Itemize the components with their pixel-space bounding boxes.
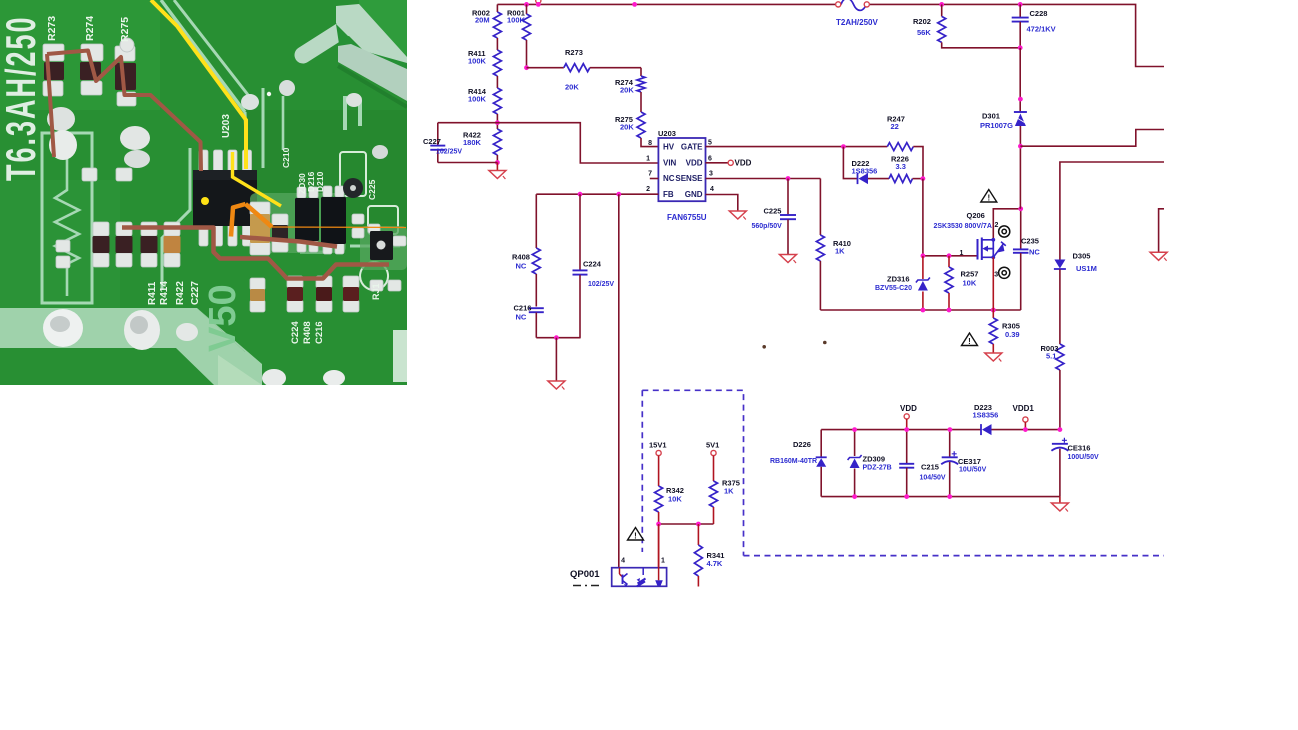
capacitor C227 <box>423 123 462 163</box>
svg-text:T6.3AH/250: T6.3AH/250 <box>0 15 45 181</box>
svg-text:D301: D301 <box>982 112 1000 121</box>
resistor R273 <box>527 48 642 92</box>
svg-text:C227: C227 <box>190 281 201 305</box>
ground (CE316) <box>1051 497 1068 512</box>
svg-text:CE317: CE317 <box>958 457 981 466</box>
svg-text:3: 3 <box>709 171 713 178</box>
svg-text:C224: C224 <box>583 260 602 269</box>
test point (drain) <box>999 226 1010 237</box>
svg-text:56K: 56K <box>917 28 931 37</box>
svg-text:R408: R408 <box>512 253 530 262</box>
svg-text:15V1: 15V1 <box>649 441 667 450</box>
capacitor C228 <box>1012 4 1056 47</box>
svg-text:PDZ-27B: PDZ-27B <box>863 465 892 472</box>
svg-text:C224: C224 <box>290 321 301 344</box>
resistor R375 <box>710 456 740 524</box>
svg-text:3.3: 3.3 <box>896 162 906 171</box>
svg-text:FB: FB <box>663 190 674 199</box>
SOT component 1 <box>295 187 319 252</box>
stray mark 1 <box>762 345 766 349</box>
annotation brown trace B3 <box>122 228 389 279</box>
dark round component <box>343 178 363 198</box>
diode D226 RB160M-40TR <box>770 430 827 497</box>
svg-text:4: 4 <box>710 186 714 193</box>
svg-text:Q206: Q206 <box>967 211 985 220</box>
wire FB ground rail <box>536 337 580 339</box>
MOSFET Q206 2SK3530 <box>934 209 1021 279</box>
resistor R342 <box>655 456 684 568</box>
annotation orange thin line <box>272 226 406 229</box>
svg-text:U203: U203 <box>658 129 676 138</box>
svg-text:VDD: VDD <box>686 159 703 168</box>
svg-text:10U/50V: 10U/50V <box>959 467 987 474</box>
annotation brown trace B1 <box>47 51 201 172</box>
resistor R414 <box>468 76 501 129</box>
svg-text:!: ! <box>987 194 990 203</box>
svg-text:C225: C225 <box>764 207 782 216</box>
svg-text:472/1KV: 472/1KV <box>1027 25 1056 34</box>
svg-text:R257: R257 <box>961 270 979 279</box>
annotation orange trace O1 <box>231 204 246 237</box>
ground (FB filter) <box>548 338 565 390</box>
svg-text:D226: D226 <box>793 440 811 449</box>
svg-text:R202: R202 <box>913 17 931 26</box>
node VDD <box>900 404 917 430</box>
svg-text:C227: C227 <box>423 137 441 146</box>
resistor R202 <box>913 4 1020 47</box>
svg-text:SENSE: SENSE <box>675 174 703 183</box>
svg-text:R422: R422 <box>175 281 186 305</box>
wire VDD rect bottom <box>821 496 1060 498</box>
ground (U203 GND pin4) <box>706 195 747 220</box>
diode D223 1S8356 <box>973 403 999 435</box>
SOT component 2 <box>321 186 346 254</box>
capacitor CE316 <box>1051 438 1099 497</box>
ground (C227/R422) <box>489 163 506 180</box>
svg-text:1: 1 <box>960 250 964 257</box>
node 5V1 <box>706 441 719 456</box>
svg-text:0.39: 0.39 <box>1005 330 1020 339</box>
wire SENSE net <box>706 178 821 180</box>
pin 7 stub <box>650 178 659 180</box>
wire drain link right <box>1020 130 1164 147</box>
warning triangle (Q206) <box>981 190 997 203</box>
resistor R247 <box>887 115 923 179</box>
svg-text:20K: 20K <box>620 86 634 95</box>
svg-text:V50: V50 <box>202 284 244 352</box>
fuse F1 T2AH/250V <box>841 0 866 10</box>
svg-text:20K: 20K <box>565 83 579 92</box>
svg-text:1: 1 <box>661 558 665 565</box>
wire source rail <box>820 309 1020 311</box>
SMD R275 <box>115 46 136 106</box>
big solder pads upper-left <box>47 107 75 131</box>
svg-text:100U/50V: 100U/50V <box>1068 454 1099 461</box>
right black component <box>368 224 406 260</box>
svg-text:R273: R273 <box>46 16 58 41</box>
svg-text:20K: 20K <box>620 123 634 132</box>
svg-text:US1M: US1M <box>1076 264 1097 273</box>
tan capacitor <box>250 202 270 255</box>
svg-text:GATE: GATE <box>681 143 703 152</box>
svg-text:C215: C215 <box>921 463 939 472</box>
etched spark-gap box <box>42 133 92 303</box>
svg-text:NC: NC <box>1029 248 1040 257</box>
wire GATE net <box>706 146 888 148</box>
misc thin traces <box>162 148 190 290</box>
capacitor CE317 <box>941 430 986 497</box>
svg-text:CE316: CE316 <box>1068 444 1091 453</box>
diode D222 1S8356 <box>843 147 889 185</box>
svg-text:NC: NC <box>516 262 527 271</box>
svg-text:R414: R414 <box>159 281 170 305</box>
svg-text:NC: NC <box>516 313 527 322</box>
bottom pale band <box>0 308 245 385</box>
PCB photo (left) <box>0 0 407 387</box>
resistor R226 <box>889 155 923 183</box>
svg-text:6: 6 <box>708 156 712 163</box>
resistor R002 <box>472 4 501 38</box>
wide tinned diagonal trace <box>336 4 407 94</box>
warning triangle (R305) <box>962 333 978 346</box>
svg-text:100K: 100K <box>468 57 487 66</box>
svg-text:C235: C235 <box>1021 237 1039 246</box>
warning triangle (QP001) <box>628 528 644 541</box>
svg-text:C216: C216 <box>314 321 325 344</box>
optocoupler QP001 <box>570 558 667 588</box>
svg-text:20M: 20M <box>475 16 490 25</box>
svg-text:BZV55-C20: BZV55-C20 <box>875 285 912 292</box>
svg-text:1S8356: 1S8356 <box>852 167 878 176</box>
svg-text:100K: 100K <box>507 16 526 25</box>
junction dots top rail <box>524 2 529 7</box>
svg-text:3: 3 <box>994 272 998 279</box>
svg-text:4.7K: 4.7K <box>707 559 723 568</box>
svg-text:1S8356: 1S8356 <box>973 411 999 420</box>
zener ZD316 BZV55-C20 <box>875 256 930 310</box>
svg-text:QP001: QP001 <box>570 569 600 580</box>
node VIN divider <box>495 120 500 125</box>
bottom-right SMD cluster <box>287 276 303 312</box>
wire QP001 pin1 <box>658 524 660 568</box>
svg-text:102/25V: 102/25V <box>436 149 462 156</box>
svg-text:!: ! <box>634 532 637 541</box>
svg-text:4: 4 <box>621 558 625 565</box>
annotation yellow trace Y2 <box>233 152 282 206</box>
wire R342/R375 junction <box>659 523 714 525</box>
svg-text:C228: C228 <box>1030 9 1048 18</box>
resistor R341 <box>694 524 724 587</box>
svg-text:560p/50V: 560p/50V <box>752 223 783 230</box>
capacitor C224 <box>573 194 615 338</box>
stray mark 2 <box>823 341 827 345</box>
svg-text:C210: C210 <box>281 147 291 168</box>
svg-text:NC: NC <box>663 174 675 183</box>
resistor R410 <box>816 179 851 311</box>
svg-text:2: 2 <box>646 186 650 193</box>
svg-text:ZD316: ZD316 <box>887 275 910 284</box>
svg-text:ZD309: ZD309 <box>863 455 886 464</box>
diode D305 US1M <box>1054 252 1097 345</box>
resistor R408 <box>512 194 540 306</box>
svg-text:C225: C225 <box>367 179 377 200</box>
resistor R257 <box>945 256 978 310</box>
svg-text:VDD: VDD <box>735 159 752 168</box>
test point (source) <box>999 267 1010 278</box>
resistor R275 <box>615 112 658 147</box>
svg-text:1K: 1K <box>835 247 845 256</box>
annotation yellow trace Y1 <box>151 0 246 169</box>
svg-text:PR1007G: PR1007G <box>980 121 1013 130</box>
svg-text:R274: R274 <box>84 16 96 41</box>
svg-text:10K: 10K <box>963 279 977 288</box>
resistor R003 <box>1041 344 1064 430</box>
wire top AC rail <box>497 3 835 5</box>
svg-text:8: 8 <box>648 140 652 147</box>
port (top off-page) <box>536 0 541 3</box>
svg-text:5.1: 5.1 <box>1046 352 1056 361</box>
resistor R274 <box>615 68 645 112</box>
svg-text:1K: 1K <box>724 487 734 496</box>
wire aux winding <box>1060 162 1164 260</box>
node VDD1 <box>1013 404 1035 430</box>
resistor R001 <box>507 4 531 67</box>
svg-text:RJ1: RJ1 <box>371 283 381 300</box>
thin diagonal trace pair <box>161 0 245 112</box>
ground (R305) <box>985 353 1002 362</box>
svg-text:7: 7 <box>648 171 652 178</box>
op-amp/PWM IC U203 FAN6755U <box>646 129 714 222</box>
capacitor C216 <box>514 304 544 338</box>
svg-text:T2AH/250V: T2AH/250V <box>836 18 878 27</box>
wire Q206 source to rail <box>992 257 994 310</box>
svg-text:RB160M-40TR: RB160M-40TR <box>770 458 817 465</box>
svg-text:100K: 100K <box>468 95 487 104</box>
wire gate drive <box>923 179 978 256</box>
ground (aux right) <box>1150 209 1167 261</box>
wire FB to optocoupler <box>618 194 620 568</box>
svg-text:!: ! <box>968 337 971 346</box>
svg-text:C216: C216 <box>514 304 532 313</box>
annotation orange trace O2 <box>246 204 273 227</box>
svg-text:R408: R408 <box>302 321 313 344</box>
svg-text:5V1: 5V1 <box>706 441 719 450</box>
resistor R422 <box>463 129 501 163</box>
svg-text:VDD1: VDD1 <box>1013 404 1035 413</box>
wire FB net <box>536 193 658 195</box>
svg-text:HV: HV <box>663 143 675 152</box>
svg-text:FAN6755U: FAN6755U <box>667 213 707 222</box>
svg-text:VIN: VIN <box>663 159 677 168</box>
svg-text:GND: GND <box>685 190 703 199</box>
capacitor C235 <box>1013 209 1040 310</box>
resistor R411 <box>468 38 501 76</box>
svg-text:104/50V: 104/50V <box>920 475 946 482</box>
svg-text:102/25V: 102/25V <box>588 281 614 288</box>
dashed feedback box <box>642 390 1164 555</box>
svg-text:R273: R273 <box>565 48 583 57</box>
svg-text:1: 1 <box>646 156 650 163</box>
annotation brown trace B2 <box>47 54 54 157</box>
wire VDD rect top <box>821 429 981 431</box>
svg-text:D305: D305 <box>1073 252 1091 261</box>
svg-text:VDD: VDD <box>900 404 917 413</box>
svg-text:D210: D210 <box>315 171 325 192</box>
SMD R273 <box>43 44 64 96</box>
resistor R305 <box>989 310 1020 353</box>
svg-text:22: 22 <box>891 122 899 131</box>
pin 6 VDD port <box>706 159 752 168</box>
capacitor C215 <box>899 430 946 497</box>
IC U203 <box>193 150 257 246</box>
svg-text:R275: R275 <box>119 17 131 42</box>
svg-text:2SK3530 800V/7A: 2SK3530 800V/7A <box>934 223 992 230</box>
node 15V1 <box>649 441 667 456</box>
svg-text:5: 5 <box>708 140 712 147</box>
diode D301 PR1007G <box>980 48 1027 209</box>
solder blobs <box>43 309 83 347</box>
annotation brown trace B4 <box>240 237 337 247</box>
svg-text:180K: 180K <box>463 138 482 147</box>
capacitor C225 <box>752 179 797 255</box>
SMD R274 <box>80 44 103 95</box>
SMD row R411 R414 R422 C227 <box>93 222 110 267</box>
svg-text:2: 2 <box>995 222 999 229</box>
svg-text:R411: R411 <box>147 281 158 305</box>
zener ZD309 PDZ-27B <box>848 430 892 497</box>
wire VIN net <box>438 123 659 163</box>
ground (C225) <box>780 255 797 264</box>
svg-text:10K: 10K <box>668 495 682 504</box>
svg-text:U203: U203 <box>221 114 232 138</box>
